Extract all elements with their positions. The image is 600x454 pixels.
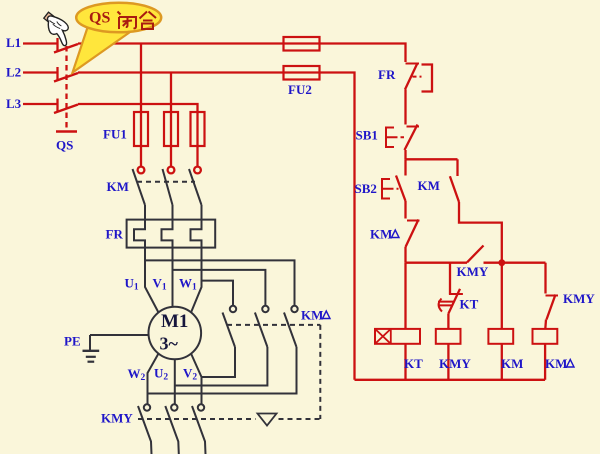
- contactor KMY contact 1 blade: [138, 406, 152, 454]
- fuse FU2 element b: [284, 66, 320, 80]
- contactor KM-delta contact 1 circle: [230, 306, 236, 312]
- button SB1 blade: [405, 125, 418, 151]
- wire KM-delta NC to bus: [404, 247, 406, 263]
- wire W1 branch to KM-delta contact 1: [202, 281, 234, 306]
- svg-text:KM: KM: [370, 227, 392, 242]
- svg-text:KM: KM: [418, 178, 440, 193]
- motor M1 stator circle: [149, 307, 202, 360]
- contact KT crossbar: [449, 293, 463, 295]
- wire KM coil to bottom bus: [501, 344, 503, 380]
- wire L1 through fuse to corner: [284, 44, 406, 63]
- svg-text:L3: L3: [6, 96, 22, 111]
- contactor KM main pole 3 blade: [189, 169, 202, 205]
- wire dot to KM coil: [501, 263, 503, 329]
- svg-text:KM: KM: [301, 308, 323, 323]
- callout bubble tail: [73, 26, 131, 73]
- thermal relay FR heater element 2: [162, 220, 173, 248]
- ground symbol bar 2: [86, 356, 96, 358]
- contactor KM-delta contact 3 blade: [284, 313, 297, 348]
- wire U2 branch to KM-delta contact 2 bottom: [175, 347, 268, 386]
- svg-text:QS: QS: [89, 10, 110, 27]
- star point triangle symbol: [258, 414, 277, 426]
- contactor KM-delta contact 2 blade: [255, 313, 268, 348]
- relay FR NC contact crossbar: [406, 63, 420, 65]
- ground symbol bar 1: [83, 350, 100, 352]
- wire L2 through fuse b to left control rail corner: [284, 73, 355, 380]
- svg-text:KMY: KMY: [457, 264, 489, 279]
- wire U1 branch to KM-delta contact 3: [145, 260, 295, 305]
- hand cursor glove: [48, 16, 69, 46]
- thermal relay FR heater block outline: [127, 220, 216, 248]
- button SB2 actuator dashed link: [390, 188, 399, 190]
- contact KT delay symbol lines: [438, 302, 454, 306]
- coil KT box: [375, 329, 420, 344]
- svg-text:FR: FR: [106, 227, 124, 242]
- svg-text:FU1: FU1: [103, 127, 127, 142]
- terminal circle phase 3: [194, 167, 201, 174]
- wire KT coil to bottom bus: [404, 344, 406, 380]
- wire V1 below FR: [172, 248, 174, 307]
- contactor KM-delta contact 2 circle: [262, 306, 268, 312]
- switch QS pole 3 fixed contact: [56, 99, 58, 113]
- fuse FU1 element 3: [191, 112, 205, 146]
- contact KM-delta NC blade: [406, 220, 419, 248]
- svg-text:KMY: KMY: [563, 291, 595, 306]
- wire PE horizontal: [90, 334, 149, 336]
- svg-text:KM: KM: [501, 356, 523, 371]
- wire fuse3 drop: [196, 112, 198, 167]
- switch QS pole 2 fixed contact: [56, 67, 58, 81]
- svg-text:KM: KM: [545, 356, 567, 371]
- linkage dashed vertical: [319, 325, 321, 419]
- wire V2 from motor: [191, 354, 202, 405]
- coil KM box: [488, 329, 513, 344]
- contactor KMY linkage dashed right part: [279, 418, 321, 420]
- hand cursor knuckle lines: [50, 21, 62, 29]
- wire SB2 to KM-delta NC: [404, 201, 406, 219]
- wire W1 below FR: [191, 248, 202, 313]
- svg-text:KMY: KMY: [439, 356, 471, 371]
- wire V2 branch to KM-delta contact 1 bottom: [202, 347, 236, 377]
- svg-text:SB2: SB2: [355, 181, 377, 196]
- label KM-delta (delta contacts): [301, 308, 330, 323]
- contactor KMY contact 3 blade: [192, 406, 206, 454]
- svg-text:QS: QS: [56, 138, 73, 153]
- contactor KMY linkage dashed left part: [138, 418, 256, 420]
- button SB1 actuator: [386, 128, 394, 148]
- contact KT delay symbol arc: [439, 299, 442, 312]
- wire fuse1 drop from L1: [140, 44, 142, 167]
- relay FR thermal bracket: [422, 65, 433, 92]
- contact KMY NO blade (bus): [467, 246, 484, 263]
- fuse FU2 element a: [284, 37, 320, 51]
- label KM-delta NC contact: [370, 227, 399, 242]
- wire junction to KM branch: [406, 158, 458, 160]
- switch QS handle bar: [56, 130, 77, 133]
- contactor KM main pole 3 lower wire: [201, 205, 203, 221]
- button SB1 crossbar: [407, 126, 420, 128]
- contact KMY NC blade: [547, 295, 556, 320]
- svg-text:L1: L1: [6, 35, 21, 50]
- contactor KM-delta contact 3 circle: [291, 306, 297, 312]
- coil KM-delta box: [533, 329, 558, 344]
- wire KM-delta NC to KT coil: [404, 263, 406, 329]
- callout glyph bi (closed): [118, 12, 137, 30]
- fuse FU1 element 2: [164, 112, 178, 146]
- wire bottom bus: [355, 379, 546, 381]
- wire W2 branch to KM-delta contact 3 bottom: [148, 347, 297, 394]
- contact KM NO upper wire: [456, 159, 458, 176]
- wire L2 right segment to FU2b: [78, 71, 284, 73]
- contactor KM-delta contact 1 blade: [223, 313, 236, 348]
- button SB1 actuator dashed link: [394, 136, 405, 138]
- wire KMY NC to KM-delta coil: [544, 320, 547, 329]
- svg-text:KMY: KMY: [101, 411, 133, 426]
- wire L1 right segment to FU2a: [78, 42, 284, 44]
- wire KT contact to KMY coil: [447, 314, 449, 329]
- contact KMY NC crossbar: [546, 295, 559, 297]
- contactor KM main pole 1 lower wire: [144, 205, 146, 221]
- contact KM-delta NC crossbar: [407, 220, 420, 222]
- thermal relay FR heater element 1: [134, 220, 145, 248]
- coil KT divider and cross: [375, 329, 391, 344]
- svg-text:PE: PE: [64, 334, 81, 349]
- svg-text:3~: 3~: [160, 334, 179, 354]
- contact KT blade: [448, 289, 460, 314]
- wire L1 left segment: [23, 42, 58, 44]
- wire KT branch drop: [449, 263, 451, 294]
- relay FR actuator dash: [413, 76, 422, 78]
- wire KM-delta coil to bottom bus: [544, 344, 546, 380]
- callout glyph he (together): [140, 12, 157, 30]
- switch QS pole 3 blade: [54, 105, 78, 114]
- hand cursor cuff: [44, 12, 55, 23]
- fuse FU1 element 1: [134, 112, 148, 146]
- svg-text:KT: KT: [404, 356, 423, 371]
- contactor KM main pole 2 lower wire: [172, 205, 174, 221]
- svg-text:M1: M1: [161, 311, 188, 332]
- switch QS pole 1 blade: [54, 44, 78, 53]
- svg-text:FR: FR: [378, 67, 396, 82]
- wire U2 from motor: [174, 359, 176, 404]
- wire KM NO to jog: [459, 202, 502, 263]
- label KM-delta coil: [545, 356, 574, 371]
- wire fuse2 drop from L2: [170, 73, 172, 167]
- wire V1 branch to KM-delta contact 2: [173, 270, 266, 306]
- switch QS pole 1 fixed contact: [56, 38, 58, 52]
- wire L3 left segment: [23, 103, 58, 105]
- switch QS linkage dashed: [65, 46, 67, 128]
- wire junction to SB2: [404, 159, 406, 175]
- wire bus left segment: [406, 262, 468, 264]
- coil KMY box: [436, 329, 461, 344]
- wire FR to SB1: [404, 90, 406, 125]
- terminal circle phase 1: [138, 167, 145, 174]
- contact KM NO blade: [450, 176, 459, 202]
- wire L2 left segment: [23, 71, 58, 73]
- callout bubble ellipse: [76, 3, 161, 33]
- contactor KMY contact 1 circle: [144, 404, 150, 410]
- button SB2 blade: [396, 176, 406, 202]
- contactor KM main linkage dashed: [137, 181, 195, 183]
- wire PE down lead: [89, 335, 91, 351]
- contactor KMY contact 2 blade: [165, 406, 179, 454]
- contactor KM main pole 1 blade: [133, 169, 146, 205]
- wire L3 to fuse 3 corner: [78, 104, 198, 112]
- wire bus corner to KMY NC: [544, 263, 546, 294]
- wire KMY coil to bottom bus: [447, 344, 449, 380]
- relay FR NC contact blade: [405, 63, 418, 90]
- contactor KMY contact 3 circle: [198, 404, 204, 410]
- terminal circle phase 2: [168, 167, 175, 174]
- svg-text:KM: KM: [107, 179, 129, 194]
- contactor KM main pole 2 blade: [163, 169, 173, 205]
- contactor KM-delta linkage dashed: [227, 324, 320, 326]
- svg-text:FU2: FU2: [288, 82, 312, 97]
- wire bus right segment: [484, 262, 546, 264]
- button SB2 actuator: [382, 179, 390, 199]
- switch QS pole 2 blade: [54, 73, 78, 82]
- wire SB1 to junction: [404, 150, 406, 159]
- thermal relay FR heater element 3: [191, 220, 202, 248]
- svg-text:SB1: SB1: [356, 128, 378, 143]
- ground symbol bar 3: [88, 361, 95, 363]
- svg-text:L2: L2: [6, 65, 21, 80]
- wire W2 from motor: [148, 354, 159, 405]
- contactor KMY contact 2 circle: [171, 404, 177, 410]
- junction dot node: [498, 259, 505, 266]
- wire U1 below FR: [145, 248, 159, 313]
- svg-text:KT: KT: [460, 297, 479, 312]
